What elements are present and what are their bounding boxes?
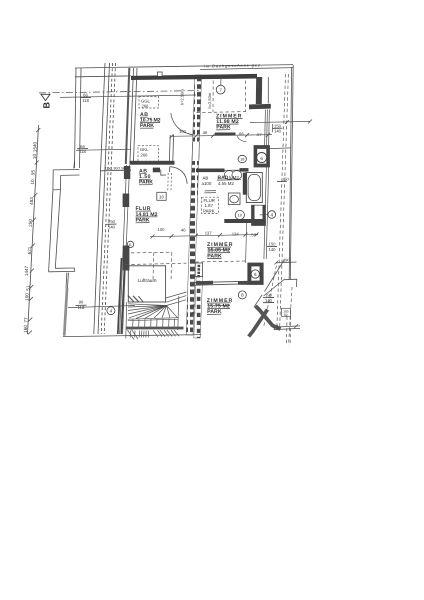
svg-text:im Dachgeschoss gez.: im Dachgeschoss gez. — [204, 62, 262, 68]
svg-text:40: 40 — [192, 311, 196, 315]
svg-text:10: 10 — [32, 154, 37, 160]
svg-text:4: 4 — [271, 212, 274, 217]
svg-text:100: 100 — [24, 293, 29, 301]
svg-text:B: B — [42, 102, 52, 109]
svg-text:66: 66 — [80, 144, 85, 149]
svg-text:12x1.90/2.50: 12x1.90/2.50 — [105, 166, 126, 170]
svg-text:5 M2: 5 M2 — [229, 175, 239, 180]
svg-text:250: 250 — [28, 219, 33, 227]
svg-text:140: 140 — [265, 298, 273, 303]
svg-text:266: 266 — [141, 153, 149, 158]
svg-text:h=2.50m: h=2.50m — [180, 89, 185, 105]
svg-text:45: 45 — [192, 304, 196, 308]
svg-text:46: 46 — [181, 228, 186, 233]
svg-text:8: 8 — [241, 293, 244, 298]
svg-text:77: 77 — [24, 317, 29, 323]
svg-text:4.55 M2: 4.55 M2 — [218, 181, 234, 186]
svg-text:AB: AB — [203, 176, 209, 181]
svg-text:137: 137 — [205, 230, 213, 235]
svg-text:51: 51 — [26, 285, 31, 291]
svg-text:66: 66 — [83, 93, 88, 98]
svg-text:82: 82 — [284, 313, 288, 317]
svg-text:1.87: 1.87 — [205, 203, 214, 208]
svg-text:118: 118 — [79, 149, 86, 154]
svg-text:4: 4 — [110, 309, 113, 314]
svg-text:10: 10 — [238, 213, 243, 218]
svg-text:6: 6 — [260, 156, 263, 161]
svg-text:10: 10 — [159, 194, 164, 199]
svg-text:6: 6 — [129, 242, 132, 247]
svg-text:10: 10 — [30, 179, 35, 185]
svg-text:1447: 1447 — [24, 265, 29, 276]
svg-text:PARK: PARK — [203, 209, 215, 214]
svg-text:46: 46 — [203, 130, 208, 135]
svg-text:140: 140 — [274, 129, 282, 134]
svg-text:190: 190 — [283, 258, 290, 263]
svg-text:.66: .66 — [238, 131, 244, 136]
svg-text:150: 150 — [274, 123, 282, 128]
svg-text:100: 100 — [158, 227, 166, 232]
svg-text:96: 96 — [79, 300, 84, 305]
svg-text:483: 483 — [29, 197, 34, 205]
svg-text:140: 140 — [108, 224, 116, 229]
svg-text:134: 134 — [232, 231, 240, 236]
svg-text:621: 621 — [27, 246, 32, 254]
svg-text:Luftraum: Luftraum — [138, 278, 157, 284]
svg-text:a100: a100 — [202, 181, 212, 186]
svg-text:160: 160 — [23, 325, 28, 333]
svg-text:150: 150 — [282, 177, 289, 182]
svg-text:1540: 1540 — [33, 141, 38, 152]
svg-text:95: 95 — [31, 170, 36, 176]
svg-text:h=2.50m: h=2.50m — [207, 92, 212, 108]
svg-text:118: 118 — [78, 305, 85, 310]
svg-text:100: 100 — [179, 129, 187, 134]
svg-text:GKL: GKL — [140, 147, 149, 152]
svg-text:266: 266 — [142, 104, 150, 109]
svg-text:140: 140 — [269, 247, 277, 252]
svg-text:18: 18 — [240, 158, 244, 162]
svg-text:250: 250 — [108, 219, 116, 224]
svg-text:118: 118 — [82, 98, 89, 103]
svg-text:.57: .57 — [256, 132, 262, 137]
svg-text:.57: .57 — [250, 232, 256, 237]
svg-text:7: 7 — [219, 87, 222, 92]
